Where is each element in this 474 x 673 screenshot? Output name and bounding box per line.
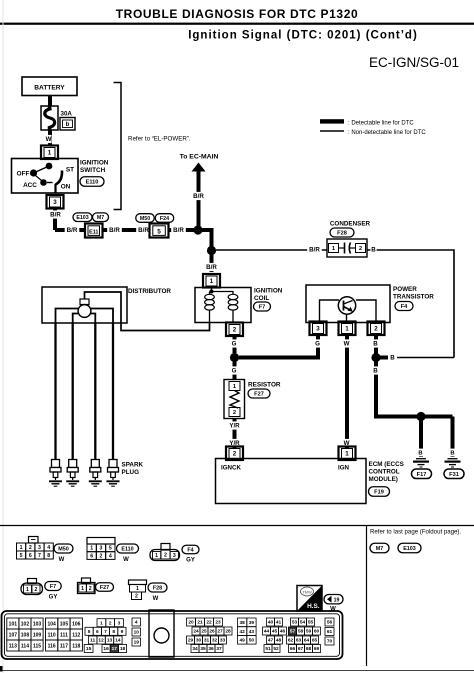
svg-text:118: 118 [72,643,80,649]
inline connector E103/M7 [73,213,109,238]
refer to EL-POWER bracket [114,83,191,210]
spark plug 2 [66,460,79,487]
ignition coil F7 [195,288,251,323]
svg-text:64: 64 [304,638,310,644]
fusible link 30A [41,106,72,130]
connector view F4 [150,544,199,564]
wire main run B/R to junction A [55,226,196,234]
svg-text:1: 1 [345,450,349,457]
connector 1 ignition switch top [41,146,58,160]
svg-text:F19: F19 [374,490,384,496]
svg-text:21: 21 [197,620,203,626]
svg-text:103: 103 [33,621,42,627]
inline connector M50/F24 terminal 5 [136,214,174,238]
svg-text:B: B [373,368,378,375]
page code EC-IGN/SG-01 [369,55,459,70]
wire transistor W to ECM IGN [343,335,349,449]
spark plug label [122,462,144,477]
svg-text:B: B [371,247,376,254]
svg-text:F24: F24 [160,216,169,222]
spark plug wire 3 [94,323,96,460]
svg-text:Ignition Signal (DTC: 0201) (C: Ignition Signal (DTC: 0201) (Cont’d) [188,30,418,42]
svg-text:OFF: OFF [17,171,30,178]
svg-text:B: B [418,451,422,457]
wire battery to fusible link [48,96,52,107]
svg-text:1: 1 [233,384,237,390]
svg-text:EC-IGN/SG-01: EC-IGN/SG-01 [369,55,459,70]
svg-text:B/R: B/R [50,212,61,219]
svg-text:1: 1 [345,325,349,332]
svg-text:37: 37 [216,646,222,652]
svg-text:M50: M50 [140,216,150,222]
connector view F7 [21,579,61,601]
svg-text:59: 59 [306,629,312,635]
svg-text:W: W [123,557,129,563]
svg-text:B: B [450,451,454,457]
ECM pins 38-50 block [238,618,257,644]
svg-text:E110: E110 [121,546,133,552]
ECM pins 20-37 [187,618,233,653]
svg-text:1: 1 [90,546,93,552]
svg-text:116: 116 [48,643,56,649]
svg-text:7: 7 [38,553,41,559]
wire ignition switch to main run B/R [48,209,63,231]
svg-text:1: 1 [155,553,158,559]
svg-text:F7: F7 [259,305,266,311]
svg-text:b: b [66,122,70,128]
svg-text:IGNITION: IGNITION [254,288,283,295]
connector view F28 [129,580,168,602]
svg-text:109: 109 [33,632,42,638]
refer to last page note [370,529,461,553]
ECM ECCS control module F19 [216,459,367,504]
wire fuse to ignition switch [45,130,51,146]
svg-text:3: 3 [173,553,176,559]
ECM label [369,461,404,496]
ignition coil label [254,288,283,312]
svg-text:47: 47 [268,638,274,644]
svg-text:B/R: B/R [67,227,78,234]
svg-text:54: 54 [300,620,306,626]
svg-text:2: 2 [233,326,237,333]
svg-text:F4: F4 [401,304,408,310]
connector 3 power transistor [310,322,327,336]
svg-text:23: 23 [215,620,221,626]
svg-text:30: 30 [196,638,202,644]
wire coil G to junction C [231,335,237,353]
subtitle [188,30,418,42]
svg-text:56: 56 [327,620,333,626]
ECM pins 56 61 70 [325,618,334,645]
wire junction D to grounds [372,358,452,417]
svg-text:G: G [315,341,320,348]
svg-text:32: 32 [212,638,218,644]
svg-text:3: 3 [53,199,57,206]
svg-text:49: 49 [239,637,245,643]
svg-text:30A: 30A [61,111,73,118]
svg-text:55: 55 [308,620,314,626]
ECM pins 40-52 [263,618,287,653]
svg-text:63: 63 [296,638,302,644]
svg-text:40: 40 [268,620,274,626]
svg-text:2: 2 [135,594,138,600]
svg-text:GY: GY [186,558,195,564]
svg-text:2: 2 [233,450,237,457]
svg-text:19: 19 [134,640,140,646]
svg-text:108: 108 [21,632,30,638]
junction node A [193,225,211,250]
svg-text:SWITCH: SWITCH [80,167,106,174]
svg-text:12: 12 [98,638,104,644]
svg-text:6: 6 [90,553,93,559]
connector 2 power transistor [368,322,385,336]
svg-text:3: 3 [38,545,41,551]
high tension lead rotor to coil [85,292,210,331]
svg-text:4: 4 [109,553,112,559]
fuse block box b [60,118,75,131]
svg-text:50: 50 [249,637,255,643]
ECM bolt hole [149,610,174,657]
svg-text:20: 20 [188,620,194,626]
distributor rotor [78,299,91,317]
svg-text:22: 22 [206,620,212,626]
ignition switch label [80,160,109,187]
svg-text:TMW: TMW [302,589,312,594]
svg-text:33: 33 [220,638,226,644]
svg-text:B/R: B/R [173,227,184,234]
wire junction B to condenser thin [216,245,327,253]
svg-text:1: 1 [136,586,139,592]
svg-text:19: 19 [334,597,340,603]
svg-text:25: 25 [201,629,207,635]
svg-text:9: 9 [121,629,124,635]
svg-text:E103: E103 [403,546,416,552]
svg-text:36: 36 [208,646,214,652]
svg-text:2: 2 [89,586,92,592]
power transistor label [393,286,434,311]
svg-text:COIL: COIL [254,295,269,302]
svg-text:1: 1 [210,278,214,285]
svg-text:3: 3 [316,325,320,332]
svg-text:Y/R: Y/R [229,423,240,430]
spark plug 4 [107,460,120,487]
svg-text:F17: F17 [417,472,427,478]
legend detectable line [320,119,414,126]
svg-text:Refer to “EL-POWER”.: Refer to “EL-POWER”. [128,136,191,143]
svg-text:24: 24 [193,629,199,635]
svg-text:43: 43 [249,629,255,635]
ground F17 [412,459,432,479]
svg-text:17: 17 [112,646,118,652]
svg-text:: Detectable line for DTC: : Detectable line for DTC [348,121,414,127]
svg-text:RESISTOR: RESISTOR [248,382,281,389]
wire condenser to ground net B thin [367,245,454,357]
connector view F27 [78,578,114,594]
svg-text:5: 5 [20,553,23,559]
svg-text:114: 114 [21,643,29,649]
svg-text:1: 1 [332,246,336,252]
svg-text:G: G [232,341,237,348]
svg-text:ST: ST [66,167,74,174]
wire transistor G to junction C [239,335,321,358]
svg-text:1: 1 [100,620,103,626]
left page edge [3,0,4,673]
svg-text:112: 112 [72,632,80,638]
svg-text:H.S.: H.S. [307,603,320,610]
svg-text:POWER: POWER [393,286,417,293]
connector 1 power transistor [339,322,356,336]
svg-text:52: 52 [273,646,279,652]
svg-text:5: 5 [88,629,91,635]
svg-text:1: 1 [48,149,52,156]
spark plug wire 4 [112,323,114,460]
page bottom rule [0,666,474,672]
svg-text:W: W [46,136,52,143]
distributor cap contacts [56,309,114,324]
svg-text:PLUG: PLUG [122,469,140,476]
svg-text:M50: M50 [58,546,69,552]
junction node E [416,412,425,457]
connector 2 ECM IGNCK [226,447,243,461]
H.S. data link symbol [297,586,322,612]
svg-text:6: 6 [96,629,99,635]
title rule [0,23,474,25]
svg-text:F4: F4 [187,547,193,553]
connector 2 ignition coil bottom [226,323,243,337]
svg-text:26: 26 [209,629,215,635]
svg-text:10: 10 [134,630,140,636]
svg-text:68: 68 [306,646,312,652]
svg-text:B/R: B/R [193,193,204,200]
connector 1 ignition coil top [203,274,220,288]
bottom section divider [0,525,474,527]
svg-text:F31: F31 [449,472,459,478]
connector 1 ECM IGN [339,447,356,461]
svg-text:31: 31 [204,638,210,644]
ground F31 [444,459,464,479]
svg-text:46: 46 [280,629,286,635]
svg-text:102: 102 [21,621,30,627]
battery [22,77,77,96]
svg-text:W: W [153,596,159,602]
svg-text:66: 66 [290,646,296,652]
svg-text:1: 1 [20,545,23,551]
junction node D [371,353,395,362]
resistor label [248,382,281,399]
svg-text:2: 2 [109,620,112,626]
svg-text:F7: F7 [50,584,56,590]
wire transistor B to junction D [372,335,378,358]
svg-text:18: 18 [120,646,126,652]
svg-text:IGNCK: IGNCK [221,465,241,472]
svg-text:IGN: IGN [338,465,350,472]
svg-text:111: 111 [60,632,68,638]
svg-text:5: 5 [157,229,161,236]
svg-text:106: 106 [72,621,81,627]
svg-text:W: W [59,557,65,563]
svg-text:IGNITION: IGNITION [80,160,109,167]
svg-text:: Non-detectable line for DTC: : Non-detectable line for DTC [348,130,426,136]
svg-text:58: 58 [298,629,304,635]
ECM pins 1-19 [84,618,140,653]
svg-text:38: 38 [239,620,245,626]
svg-text:3: 3 [118,620,121,626]
svg-text:28: 28 [225,629,231,635]
svg-text:44: 44 [264,629,270,635]
svg-text:Refer to last page (Foldout pa: Refer to last page (Foldout page). [370,529,461,536]
svg-text:MODULE): MODULE) [369,476,398,483]
svg-text:16: 16 [103,646,109,652]
svg-text:5: 5 [109,546,112,552]
svg-text:B: B [373,341,378,348]
svg-text:W: W [344,341,350,348]
svg-text:M7: M7 [97,215,104,221]
svg-text:39: 39 [249,620,255,626]
svg-text:3: 3 [100,546,103,552]
svg-text:101: 101 [9,621,18,627]
svg-text:F27: F27 [254,392,264,398]
page title [116,7,359,21]
svg-text:SPARK: SPARK [122,462,144,469]
ignition switch E110 [12,159,79,194]
distributor [42,287,171,323]
spark plug 3 [89,460,102,487]
svg-text:CONDENSER: CONDENSER [330,221,371,228]
svg-text:61: 61 [327,629,333,635]
power transistor F4 [306,285,390,323]
svg-text:104: 104 [47,621,56,627]
svg-text:4: 4 [47,545,50,551]
svg-text:1: 1 [26,587,29,593]
bottom section vertical divider [366,526,368,667]
svg-text:60: 60 [314,629,320,635]
svg-text:65: 65 [312,638,318,644]
svg-text:2: 2 [29,545,32,551]
svg-text:B: B [390,355,395,362]
svg-text:2: 2 [233,410,236,416]
connector view E110 [87,538,139,564]
svg-text:M7: M7 [376,546,384,552]
condenser F28 [327,221,371,258]
svg-text:57: 57 [290,629,296,635]
svg-text:41: 41 [276,620,282,626]
svg-text:GY: GY [49,595,58,601]
arrow to EC-MAIN [180,154,219,227]
svg-text:To EC-MAIN: To EC-MAIN [180,154,219,161]
svg-text:E110: E110 [86,180,99,186]
svg-text:F28: F28 [337,231,347,237]
svg-text:70: 70 [327,639,333,645]
svg-text:E11: E11 [89,229,98,235]
svg-text:6: 6 [29,553,32,559]
svg-text:2: 2 [374,325,378,332]
svg-text:14: 14 [115,638,121,644]
wire to ground F31 [450,417,456,458]
svg-text:7: 7 [104,629,107,635]
svg-text:4: 4 [135,620,138,626]
svg-text:BATTERY: BATTERY [34,85,65,92]
svg-text:48: 48 [276,638,282,644]
svg-text:TRANSISTOR: TRANSISTOR [393,294,434,301]
svg-text:TROUBLE DIAGNOSIS FOR DTC P132: TROUBLE DIAGNOSIS FOR DTC P1320 [116,7,359,21]
svg-text:13: 13 [107,638,113,644]
connector 3 ignition switch bottom [47,195,64,209]
F19 pointer [324,595,343,613]
wire junction C to resistor [231,358,237,381]
svg-text:2: 2 [359,246,362,252]
svg-text:ECM (ECCS: ECM (ECCS [369,461,404,468]
svg-text:B/R: B/R [109,227,120,234]
svg-text:113: 113 [9,643,17,649]
svg-text:110: 110 [48,632,56,638]
svg-text:F27: F27 [100,585,109,591]
svg-text:2: 2 [100,553,103,559]
legend non-detectable line [320,130,426,136]
wire resistor to ECM IGNCK [227,419,242,449]
ECM pins 53-69 [287,618,321,653]
svg-text:69: 69 [314,646,320,652]
ECM pins 101-118 [7,618,83,651]
svg-text:15: 15 [86,646,92,652]
svg-text:ACC: ACC [23,182,37,189]
svg-text:2: 2 [35,587,38,593]
svg-text:8: 8 [112,629,115,635]
svg-text:53: 53 [292,620,298,626]
ECM terminal layout [2,611,343,659]
spark plug wire 2 [72,323,74,460]
svg-text:1: 1 [81,586,84,592]
svg-text:105: 105 [60,621,69,627]
svg-text:107: 107 [9,632,18,638]
svg-text:67: 67 [298,646,304,652]
svg-text:42: 42 [239,629,245,635]
svg-text:117: 117 [60,643,68,649]
svg-text:2: 2 [164,552,167,558]
connector view M50 [17,537,74,564]
svg-text:11: 11 [90,638,95,644]
svg-text:E103: E103 [76,215,88,221]
svg-text:62: 62 [288,638,294,644]
spark plug 1 [49,460,62,487]
svg-text:B/R: B/R [138,227,149,234]
svg-text:29: 29 [188,638,194,644]
junction node B [204,246,219,272]
svg-text:45: 45 [272,629,278,635]
resistor F27 [224,380,245,419]
junction node C [230,353,239,362]
svg-text:ON: ON [61,184,71,191]
svg-text:115: 115 [33,643,41,649]
svg-text:F28: F28 [153,585,162,591]
svg-text:CONTROL: CONTROL [369,469,400,476]
svg-text:34: 34 [192,646,198,652]
svg-text:B/R: B/R [206,264,217,271]
svg-text:G: G [232,368,237,375]
svg-text:27: 27 [217,629,223,635]
svg-text:8: 8 [47,553,50,559]
spark plug wire 1 [54,323,56,460]
svg-text:35: 35 [200,646,206,652]
svg-text:B/R: B/R [309,247,320,254]
svg-text:DISTRIBUTOR: DISTRIBUTOR [128,288,171,295]
svg-text:51: 51 [265,646,271,652]
